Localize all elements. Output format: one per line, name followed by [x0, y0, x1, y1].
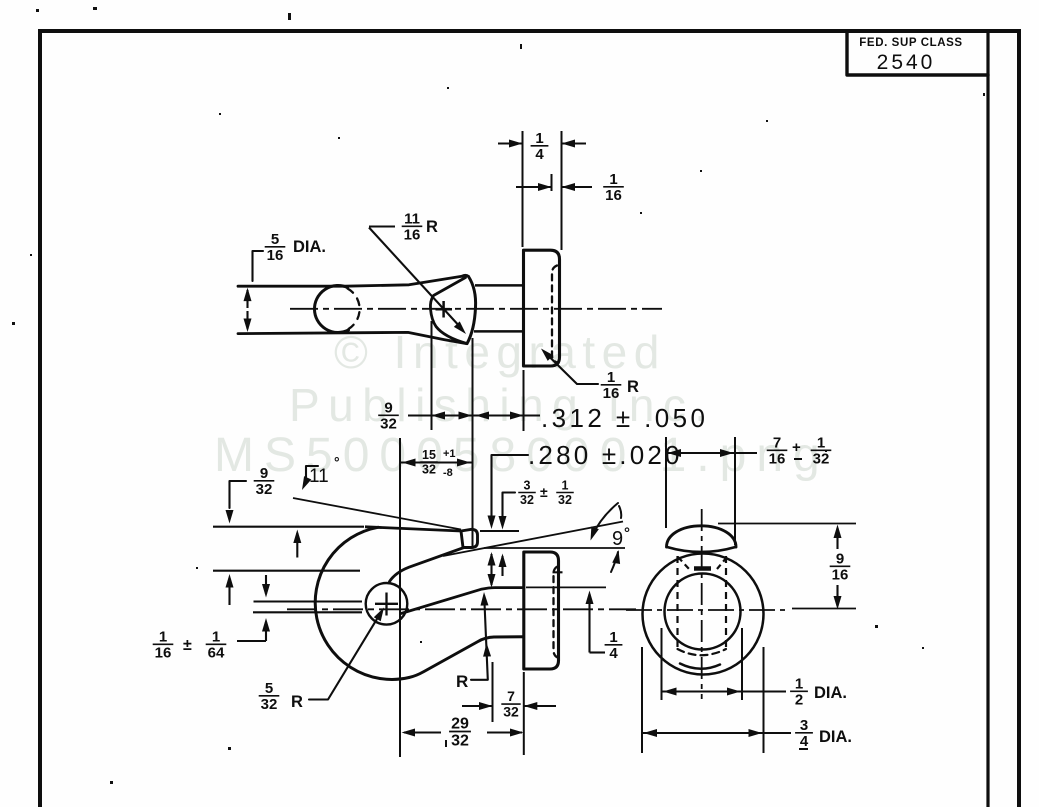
sheet left border	[38, 29, 42, 807]
front view lower arm top line	[401, 588, 524, 614]
svg-text:1: 1	[609, 629, 617, 646]
dim 1/4 right extension of shank top	[526, 586, 606, 588]
end view hidden tip bar	[694, 566, 711, 571]
top view centerline	[290, 308, 662, 310]
dim 7/32 arrows	[462, 705, 493, 707]
front view head hidden edge dashed	[554, 567, 558, 658]
svg-text:±: ±	[540, 484, 548, 500]
svg-text:-8: -8	[443, 467, 453, 479]
extension line L1 hook top	[213, 526, 364, 528]
svg-text:2540: 2540	[877, 51, 936, 74]
end view hidden V dashes	[678, 557, 689, 569]
front view tip underside line	[390, 548, 465, 582]
svg-text:7: 7	[773, 434, 781, 451]
svg-text:3: 3	[524, 479, 531, 493]
svg-text:1: 1	[562, 479, 569, 493]
dim 1/16 extension tick	[551, 174, 553, 191]
extension line C head left edge	[523, 370, 525, 431]
top view rounded shank end cap arc	[314, 285, 348, 332]
svg-text:1: 1	[607, 369, 615, 386]
dim 9/32 left bracket and arrows	[230, 481, 247, 508]
dim 7/16 extension lines	[665, 437, 667, 528]
svg-text:R: R	[291, 693, 303, 711]
svg-text:7: 7	[507, 688, 515, 704]
leader 11/16 R	[369, 225, 395, 227]
end view hidden shank sides dashed	[676, 556, 678, 652]
extension line L4	[253, 611, 362, 613]
extension line x=400 long	[399, 438, 401, 757]
svg-text:11: 11	[309, 466, 329, 487]
svg-text:16: 16	[155, 645, 172, 662]
svg-text:1: 1	[535, 130, 543, 147]
dim 3/4 arrows	[642, 732, 764, 734]
svg-text:5: 5	[265, 680, 273, 697]
dim 3/32 bracket	[503, 493, 516, 522]
svg-text:R: R	[456, 672, 468, 691]
svg-text:2: 2	[795, 692, 803, 709]
end view tip bottom arc	[680, 664, 720, 669]
dim 1/4 right extension line	[561, 131, 563, 250]
svg-text:9: 9	[384, 399, 392, 416]
front view throat small circle	[366, 583, 408, 625]
svg-text:R: R	[627, 378, 639, 396]
dim chain 9/32 and .312 line	[408, 414, 540, 416]
end view hidden shank end arc dashed	[678, 649, 727, 655]
svg-text:29: 29	[451, 716, 469, 733]
sheet top border	[38, 29, 1021, 33]
dim .280 lower arrows	[490, 554, 492, 585]
dim 1/16 arrows	[516, 186, 552, 188]
front view head outline	[524, 552, 559, 669]
svg-text:32: 32	[422, 463, 436, 477]
svg-text:1: 1	[159, 628, 167, 645]
svg-text:4: 4	[800, 733, 809, 750]
svg-text:32: 32	[261, 696, 278, 713]
dim 7/32 extension E head edge	[523, 672, 525, 755]
svg-text:1: 1	[817, 434, 825, 451]
dim 1/2 arrows	[662, 690, 743, 692]
svg-text:32: 32	[503, 704, 519, 720]
svg-text:.312 ± .050: .312 ± .050	[541, 403, 708, 433]
extension line L2 throat	[213, 570, 360, 572]
svg-text:16: 16	[603, 385, 620, 402]
dim .280 bracket	[492, 455, 529, 521]
label 11 degrees	[306, 466, 318, 477]
svg-text:9: 9	[836, 550, 844, 567]
dim R lower leader	[471, 596, 488, 680]
top view head outline	[524, 250, 560, 366]
dim 1/4 right arrow and elbow	[588, 594, 590, 653]
single up arrow below L1	[296, 533, 298, 558]
front view tip block top extension	[480, 530, 519, 532]
dim 3/4 extension lines	[641, 647, 643, 753]
dim 5/16 DIA arrows	[246, 290, 248, 308]
top view shank top edge with left extension	[238, 276, 462, 286]
svg-text:5: 5	[271, 231, 279, 248]
top view shank behind cone top edge	[475, 284, 523, 287]
sheet right inner rule	[986, 31, 989, 807]
sheet right outer border	[1017, 29, 1021, 807]
end view outer circle	[643, 554, 764, 675]
svg-text:11: 11	[404, 210, 420, 227]
svg-text:FED. SUP CLASS: FED. SUP CLASS	[859, 37, 962, 49]
svg-text:16: 16	[832, 567, 849, 584]
dim 7/32 extension D	[492, 662, 494, 722]
end view horizontal centerline	[626, 609, 790, 611]
svg-text:32: 32	[256, 481, 273, 498]
dim 9/16 top extension	[718, 523, 856, 525]
front view hook tip block	[461, 529, 478, 547]
9 degree horizontal line	[484, 547, 625, 549]
dim 1/16 pm 1/64 arrows	[265, 575, 267, 594]
FED SUP CLASS box	[847, 32, 988, 75]
9 degree lower arc arrow	[611, 552, 618, 572]
svg-text:1: 1	[212, 628, 220, 645]
dim 3/32 lower arrow	[501, 556, 503, 576]
dim 7/16 arrows	[666, 452, 735, 454]
top view hook cone left edge	[430, 278, 467, 344]
top view shank bottom edge with left extension	[238, 332, 467, 343]
svg-text:32: 32	[520, 493, 534, 507]
end view vertical centerline	[701, 509, 703, 699]
top view shank behind cone bottom edge	[474, 330, 523, 333]
end view inner circle	[665, 574, 741, 650]
svg-text:.280 ±.020: .280 ±.020	[528, 440, 683, 470]
svg-text:DIA.: DIA.	[814, 684, 847, 702]
svg-text:±: ±	[183, 637, 192, 654]
svg-text:DIA.: DIA.	[819, 728, 852, 746]
front view outer hook arc	[315, 527, 409, 679]
leader 1/16 R head corner	[544, 352, 598, 385]
top view hidden end cap arc (dashed)	[348, 289, 360, 330]
top view cone center mark	[436, 308, 453, 311]
svg-text:R: R	[426, 218, 438, 236]
9 degree upper arc tick	[619, 506, 621, 518]
svg-text:1: 1	[609, 171, 617, 188]
dim 15/32 line	[400, 461, 473, 463]
front view centerline	[287, 608, 636, 610]
svg-text:+1: +1	[443, 448, 456, 460]
svg-text:9: 9	[612, 528, 623, 550]
svg-text:4: 4	[609, 645, 618, 662]
svg-text:64: 64	[208, 645, 225, 662]
extension line L3	[254, 600, 363, 602]
svg-text:4: 4	[535, 146, 544, 163]
svg-text:1: 1	[795, 675, 803, 692]
svg-text:15: 15	[422, 448, 436, 462]
svg-text:16: 16	[769, 451, 786, 468]
svg-text:32: 32	[451, 733, 469, 750]
svg-text:32: 32	[380, 416, 397, 433]
top view hook cone peak	[462, 275, 469, 276]
9 degree slant line	[443, 522, 623, 557]
svg-text:16: 16	[404, 227, 421, 244]
front view hook top line	[365, 527, 461, 531]
leader 5/32 R	[309, 612, 382, 700]
svg-text:°: °	[624, 525, 630, 542]
11 degree slant line	[293, 498, 461, 530]
extension line A x=431.5	[431, 321, 433, 430]
svg-text:DIA.: DIA.	[293, 238, 326, 256]
svg-text:32: 32	[558, 493, 572, 507]
9 degree upper arrow	[592, 503, 618, 536]
svg-text:16: 16	[605, 187, 622, 204]
front view outer-to-shank tangent	[409, 637, 524, 678]
svg-text:16: 16	[267, 247, 284, 264]
top view hook cone right edge arc	[467, 277, 476, 344]
dim 29/32 line and arrows	[404, 731, 441, 733]
dim 1/2 extension lines	[661, 628, 663, 700]
scan specks	[36, 9, 39, 12]
dim 5/16 DIA bracket	[253, 251, 264, 281]
top view head hidden edge (dashed)	[552, 266, 557, 363]
svg-text:°: °	[334, 454, 340, 470]
front view throat center mark	[375, 603, 398, 605]
dim 9/16 arrows	[836, 528, 838, 549]
extension line B x=472.5	[472, 338, 474, 546]
dim 9/16 lower extension	[792, 608, 856, 610]
svg-text:3: 3	[800, 717, 808, 734]
end view tip dome	[667, 526, 737, 547]
svg-text:9: 9	[260, 465, 268, 482]
dim 1/4 arrows	[498, 142, 523, 144]
svg-text:+: +	[792, 439, 801, 456]
dim 1/4 left extension line	[522, 131, 524, 247]
svg-text:32: 32	[813, 451, 830, 468]
front view head notch line	[553, 571, 563, 573]
